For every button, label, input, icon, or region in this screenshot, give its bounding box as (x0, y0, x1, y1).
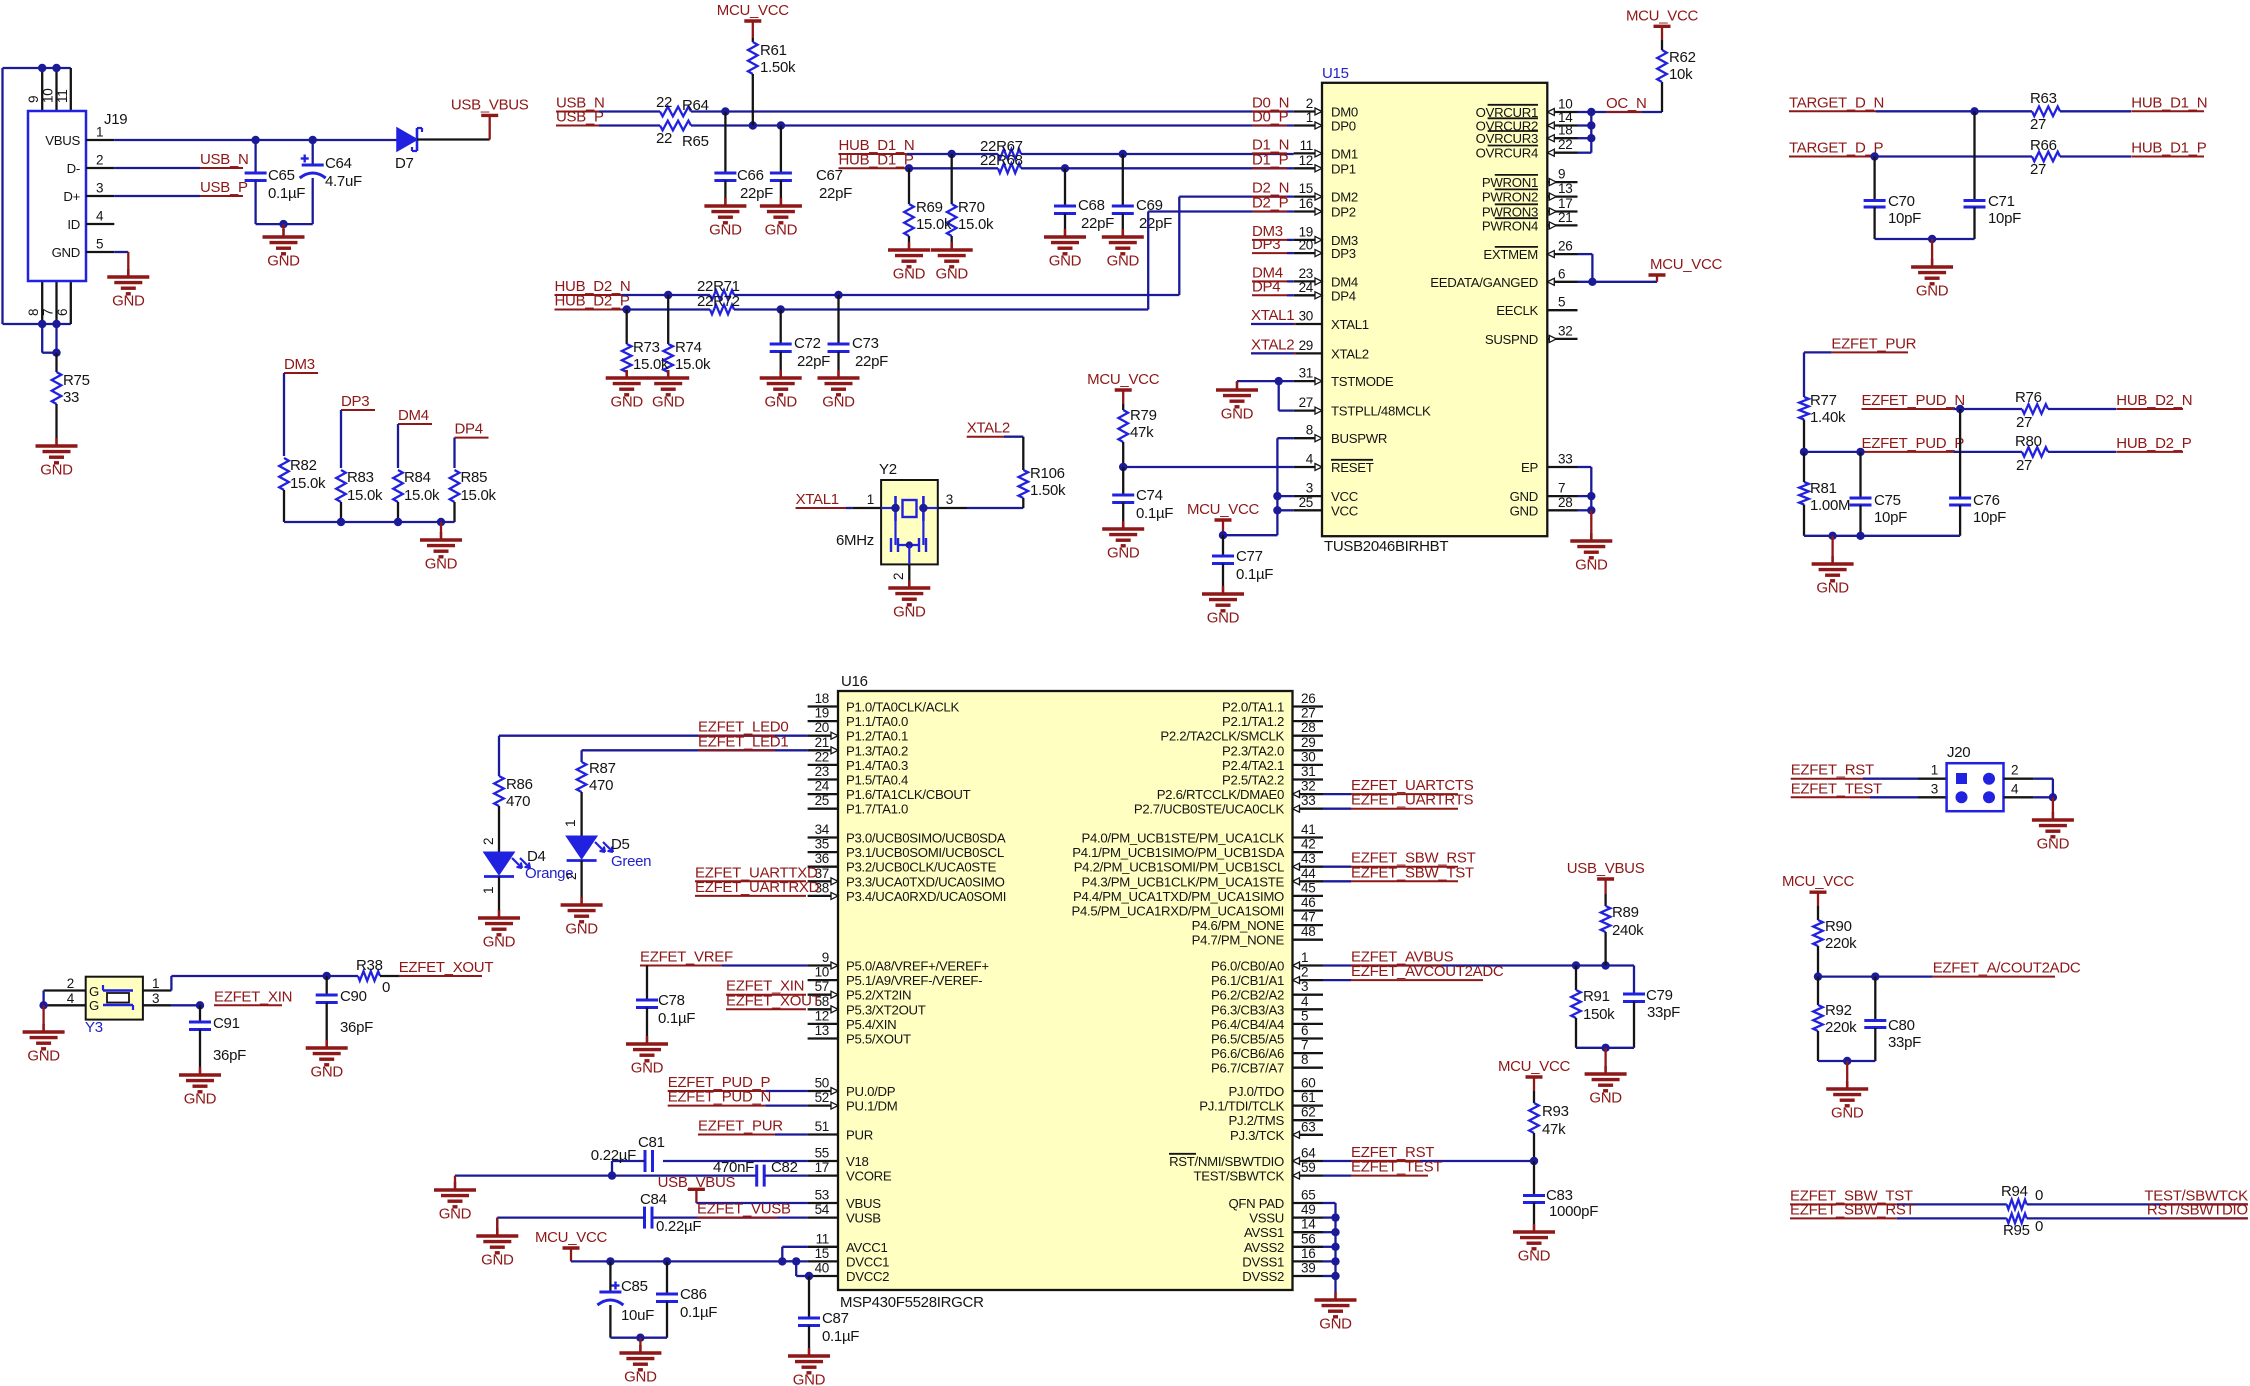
svg-text:30: 30 (1299, 309, 1313, 324)
svg-text:0: 0 (2035, 1218, 2043, 1235)
svg-text:GND: GND (267, 253, 300, 270)
svg-text:49: 49 (1301, 1202, 1315, 1217)
svg-text:15.0k: 15.0k (290, 475, 326, 492)
svg-text:P3.0/UCB0SIMO/UCB0SDA: P3.0/UCB0SIMO/UCB0SDA (846, 831, 1006, 846)
svg-text:4: 4 (1306, 452, 1314, 467)
svg-text:15.0k: 15.0k (347, 487, 383, 504)
svg-text:19: 19 (815, 706, 829, 721)
svg-text:C91: C91 (213, 1015, 240, 1032)
svg-text:6: 6 (1301, 1023, 1308, 1038)
svg-text:EZFET_TEST: EZFET_TEST (1791, 780, 1882, 797)
svg-text:47k: 47k (1130, 424, 1154, 441)
svg-text:D-: D- (67, 161, 80, 176)
svg-text:XTAL2: XTAL2 (967, 420, 1010, 437)
svg-text:48: 48 (1301, 924, 1315, 939)
svg-text:22: 22 (1558, 137, 1572, 152)
svg-text:27: 27 (1301, 706, 1315, 721)
svg-text:C79: C79 (1646, 987, 1673, 1004)
svg-text:29: 29 (1299, 338, 1313, 353)
svg-text:XTAL1: XTAL1 (1331, 317, 1369, 332)
svg-text:DVSS1: DVSS1 (1242, 1254, 1284, 1269)
svg-text:33: 33 (1558, 452, 1572, 467)
svg-text:P3.4/UCA0RXD/UCA0SOMI: P3.4/UCA0RXD/UCA0SOMI (846, 889, 1006, 904)
svg-text:220k: 220k (1825, 1019, 1857, 1036)
svg-text:P6.1/CB1/A1: P6.1/CB1/A1 (1211, 973, 1284, 988)
svg-text:P6.7/CB7/A7: P6.7/CB7/A7 (1211, 1061, 1284, 1076)
svg-text:11: 11 (816, 1231, 829, 1246)
svg-text:47: 47 (1301, 910, 1315, 925)
svg-text:2: 2 (2011, 763, 2018, 778)
svg-text:P1.6/TA1CLK/CBOUT: P1.6/TA1CLK/CBOUT (846, 787, 971, 802)
svg-text:TARGET_D_N: TARGET_D_N (1789, 94, 1884, 111)
svg-text:J19: J19 (104, 111, 127, 128)
svg-text:22pF: 22pF (740, 185, 773, 202)
svg-text:18: 18 (815, 691, 829, 706)
svg-text:AVCC1: AVCC1 (846, 1240, 888, 1255)
svg-text:5: 5 (96, 237, 103, 252)
svg-text:15.0k: 15.0k (404, 487, 440, 504)
svg-text:25: 25 (1299, 495, 1313, 510)
svg-text:R93: R93 (1542, 1103, 1569, 1120)
svg-text:P6.3/CB3/A3: P6.3/CB3/A3 (1211, 1002, 1284, 1017)
svg-text:P2.0/TA1.1: P2.0/TA1.1 (1222, 700, 1284, 715)
svg-text:TEST/SBWTCK: TEST/SBWTCK (1194, 1169, 1285, 1184)
svg-text:R106: R106 (1030, 465, 1065, 482)
svg-text:D+: D+ (63, 189, 80, 204)
svg-text:P1.4/TA0.3: P1.4/TA0.3 (846, 758, 908, 773)
svg-text:470: 470 (506, 793, 530, 810)
svg-text:U16: U16 (841, 673, 868, 690)
svg-text:HUB_D2_P: HUB_D2_P (2116, 435, 2191, 452)
svg-text:20: 20 (815, 720, 829, 735)
svg-text:15.0k: 15.0k (633, 356, 669, 373)
svg-text:0.1µF: 0.1µF (822, 1328, 859, 1345)
svg-text:3: 3 (1301, 979, 1308, 994)
svg-text:GND: GND (310, 1064, 343, 1081)
svg-text:GND: GND (1510, 489, 1538, 504)
svg-text:EZFET_XIN: EZFET_XIN (214, 988, 292, 1005)
svg-text:P2.5/TA2.2: P2.5/TA2.2 (1222, 773, 1284, 788)
svg-text:EZFET_A/COUT2ADC: EZFET_A/COUT2ADC (1933, 960, 2081, 977)
svg-text:4: 4 (96, 209, 104, 224)
svg-text:P6.6/CB6/A6: P6.6/CB6/A6 (1211, 1046, 1284, 1061)
svg-text:1: 1 (563, 820, 578, 827)
svg-text:EZFET_PUR: EZFET_PUR (698, 1118, 783, 1135)
svg-text:PJ.1/TDI/TCLK: PJ.1/TDI/TCLK (1199, 1099, 1284, 1114)
svg-text:C78: C78 (658, 992, 685, 1009)
svg-text:15.0k: 15.0k (675, 356, 711, 373)
svg-text:P6.0/CB0/A0: P6.0/CB0/A0 (1211, 959, 1284, 974)
svg-text:DP3: DP3 (341, 393, 369, 410)
svg-text:GND: GND (40, 462, 73, 479)
svg-text:R85: R85 (461, 469, 488, 486)
svg-text:15: 15 (1299, 181, 1313, 196)
svg-text:22R72: 22R72 (697, 293, 740, 310)
svg-text:6: 6 (55, 309, 70, 316)
svg-text:RST/NMI/SBWTDIO: RST/NMI/SBWTDIO (1169, 1154, 1284, 1169)
svg-text:EECLK: EECLK (1496, 303, 1538, 318)
svg-text:HUB_D1_P: HUB_D1_P (839, 151, 914, 168)
svg-text:GND: GND (481, 1252, 514, 1269)
svg-text:P4.7/PM_NONE: P4.7/PM_NONE (1192, 933, 1285, 948)
svg-text:GND: GND (52, 245, 80, 260)
svg-text:R69: R69 (916, 199, 943, 216)
svg-text:DM2: DM2 (1331, 190, 1358, 205)
svg-text:1.50k: 1.50k (1030, 482, 1066, 499)
svg-text:P3.1/UCB0SOMI/UCB0SCL: P3.1/UCB0SOMI/UCB0SCL (846, 845, 1004, 860)
svg-text:ID: ID (67, 217, 80, 232)
svg-text:1: 1 (481, 887, 496, 894)
svg-text:R80: R80 (2015, 433, 2042, 450)
svg-text:P4.4/PM_UCA1TXD/PM_UCA1SIMO: P4.4/PM_UCA1TXD/PM_UCA1SIMO (1073, 889, 1284, 904)
svg-text:33: 33 (63, 389, 79, 406)
svg-text:1: 1 (152, 976, 159, 991)
svg-text:PJ.0/TDO: PJ.0/TDO (1229, 1084, 1285, 1099)
svg-text:22R68: 22R68 (980, 152, 1023, 169)
svg-text:27: 27 (2030, 161, 2046, 178)
svg-text:DP0: DP0 (1331, 119, 1356, 134)
svg-text:GND: GND (1319, 1316, 1352, 1333)
svg-text:GND: GND (112, 293, 145, 310)
svg-text:PWRON3: PWRON3 (1482, 205, 1538, 220)
svg-text:MCU_VCC: MCU_VCC (1498, 1058, 1571, 1075)
svg-text:0.1µF: 0.1µF (1136, 505, 1173, 522)
svg-text:10pF: 10pF (1988, 210, 2021, 227)
svg-text:P2.6/RTCCLK/DMAE0: P2.6/RTCCLK/DMAE0 (1157, 787, 1284, 802)
svg-text:17: 17 (815, 1160, 829, 1175)
svg-text:GND: GND (1518, 1248, 1551, 1265)
svg-text:26: 26 (1558, 239, 1572, 254)
svg-text:GND: GND (1107, 253, 1140, 270)
svg-text:P6.5/CB5/A5: P6.5/CB5/A5 (1211, 1032, 1284, 1047)
svg-text:2: 2 (67, 976, 74, 991)
svg-text:34: 34 (815, 822, 830, 837)
svg-text:1: 1 (96, 125, 103, 140)
svg-text:USB_VBUS: USB_VBUS (658, 1174, 736, 1191)
svg-text:GND: GND (1916, 283, 1949, 300)
svg-text:22pF: 22pF (855, 353, 888, 370)
svg-text:P3.2/UCB0CLK/UCA0STE: P3.2/UCB0CLK/UCA0STE (846, 860, 997, 875)
svg-text:9: 9 (26, 96, 41, 103)
svg-text:D5: D5 (611, 836, 630, 853)
svg-text:27: 27 (2016, 414, 2032, 431)
svg-text:4: 4 (1301, 994, 1309, 1009)
svg-text:18: 18 (1558, 123, 1572, 138)
svg-text:C76: C76 (1973, 492, 2000, 509)
svg-text:10uF: 10uF (621, 1307, 654, 1324)
svg-text:C77: C77 (1236, 548, 1263, 565)
svg-text:GND: GND (822, 394, 855, 411)
svg-text:EZFET_SBW_TST: EZFET_SBW_TST (1351, 864, 1474, 881)
svg-text:P1.3/TA0.2: P1.3/TA0.2 (846, 743, 908, 758)
svg-text:GND: GND (1107, 545, 1140, 562)
svg-text:PJ.3/TCK: PJ.3/TCK (1230, 1128, 1285, 1143)
svg-text:5: 5 (1301, 1008, 1308, 1023)
svg-text:25: 25 (815, 793, 829, 808)
svg-text:59: 59 (1301, 1160, 1315, 1175)
svg-text:MCU_VCC: MCU_VCC (1782, 873, 1855, 890)
svg-text:VBUS: VBUS (45, 133, 80, 148)
svg-text:R74: R74 (675, 339, 702, 356)
svg-text:C67: C67 (816, 167, 843, 184)
svg-text:23: 23 (1299, 266, 1313, 281)
svg-text:8: 8 (1301, 1052, 1308, 1067)
svg-text:P1.0/TA0CLK/ACLK: P1.0/TA0CLK/ACLK (846, 700, 959, 715)
svg-text:1.40k: 1.40k (1810, 409, 1846, 426)
svg-text:32: 32 (1301, 779, 1315, 794)
svg-text:5: 5 (1558, 295, 1565, 310)
svg-text:USB_P: USB_P (556, 109, 604, 126)
svg-text:22pF: 22pF (797, 353, 830, 370)
svg-text:50: 50 (815, 1076, 829, 1091)
svg-text:R62: R62 (1669, 49, 1696, 66)
svg-text:GND: GND (425, 556, 458, 573)
svg-text:EZFET_TEST: EZFET_TEST (1351, 1159, 1442, 1176)
svg-text:XTAL1: XTAL1 (1251, 307, 1294, 324)
svg-text:C72: C72 (794, 335, 821, 352)
svg-text:GND: GND (624, 1369, 657, 1386)
svg-text:15.0k: 15.0k (958, 216, 994, 233)
svg-text:OVRCUR4: OVRCUR4 (1476, 146, 1538, 161)
svg-text:470: 470 (589, 777, 613, 794)
svg-text:HUB_D2_N: HUB_D2_N (2116, 392, 2192, 409)
svg-text:R86: R86 (506, 776, 533, 793)
svg-text:1: 1 (1931, 763, 1938, 778)
svg-text:7: 7 (1301, 1038, 1308, 1053)
svg-text:9: 9 (1558, 167, 1565, 182)
svg-text:VBUS: VBUS (846, 1196, 881, 1211)
svg-text:33: 33 (1301, 793, 1315, 808)
svg-text:13: 13 (815, 1023, 829, 1038)
svg-text:55: 55 (815, 1146, 829, 1161)
svg-text:64: 64 (1301, 1146, 1316, 1161)
svg-text:R90: R90 (1825, 918, 1852, 935)
svg-text:HUB_D1_P: HUB_D1_P (2131, 140, 2206, 157)
svg-text:51: 51 (815, 1119, 829, 1134)
svg-text:R94: R94 (2001, 1183, 2028, 1200)
svg-text:24: 24 (1299, 280, 1314, 295)
svg-text:VCORE: VCORE (846, 1169, 892, 1184)
svg-text:DM4: DM4 (398, 407, 429, 424)
svg-text:TUSB2046BIRHBT: TUSB2046BIRHBT (1324, 538, 1448, 555)
svg-text:56: 56 (1301, 1231, 1315, 1246)
svg-text:DP3: DP3 (1252, 236, 1280, 253)
svg-text:TARGET_D_P: TARGET_D_P (1789, 140, 1884, 157)
svg-text:DVCC1: DVCC1 (846, 1254, 889, 1269)
svg-text:GND: GND (439, 1206, 472, 1223)
svg-text:45: 45 (1301, 880, 1315, 895)
svg-text:42: 42 (1301, 837, 1315, 852)
svg-text:MCU_VCC: MCU_VCC (1650, 256, 1723, 273)
svg-text:XTAL1: XTAL1 (796, 491, 839, 508)
svg-text:GND: GND (893, 266, 926, 283)
svg-text:43: 43 (1301, 851, 1315, 866)
svg-text:22: 22 (815, 749, 829, 764)
svg-text:Green: Green (611, 853, 651, 870)
svg-text:36pF: 36pF (340, 1019, 373, 1036)
svg-text:C90: C90 (340, 988, 367, 1005)
svg-text:35: 35 (815, 837, 829, 852)
svg-text:D4: D4 (527, 848, 546, 865)
svg-text:U15: U15 (1322, 65, 1349, 82)
svg-text:10pF: 10pF (1888, 210, 1921, 227)
svg-text:PUR: PUR (846, 1128, 873, 1143)
svg-text:4: 4 (2011, 781, 2019, 796)
svg-text:46: 46 (1301, 895, 1315, 910)
svg-text:DVCC2: DVCC2 (846, 1269, 889, 1284)
svg-text:GND: GND (1589, 1090, 1622, 1107)
svg-text:R70: R70 (958, 199, 985, 216)
svg-text:C84: C84 (640, 1191, 667, 1208)
svg-text:52: 52 (815, 1090, 829, 1105)
svg-text:P4.2/PM_UCB1SOMI/PM_UCB1SCL: P4.2/PM_UCB1SOMI/PM_UCB1SCL (1074, 860, 1284, 875)
svg-text:7: 7 (1558, 481, 1565, 496)
svg-text:P1.1/TA0.0: P1.1/TA0.0 (846, 714, 908, 729)
svg-text:22pF: 22pF (819, 185, 852, 202)
svg-text:EZFET_VREF: EZFET_VREF (640, 949, 733, 966)
svg-text:VCC: VCC (1331, 503, 1359, 518)
svg-text:Y2: Y2 (879, 461, 897, 478)
svg-text:PJ.2/TMS: PJ.2/TMS (1229, 1113, 1285, 1128)
svg-text:D0_P: D0_P (1252, 109, 1289, 126)
svg-text:P1.5/TA0.4: P1.5/TA0.4 (846, 773, 908, 788)
svg-text:3: 3 (152, 991, 159, 1006)
svg-text:QFN PAD: QFN PAD (1228, 1196, 1284, 1211)
svg-text:36pF: 36pF (213, 1047, 246, 1064)
svg-text:DM1: DM1 (1331, 146, 1358, 161)
svg-text:C68: C68 (1078, 197, 1105, 214)
svg-text:EZFET_PUD_N: EZFET_PUD_N (668, 1089, 771, 1106)
svg-text:EZFET_VUSB: EZFET_VUSB (697, 1201, 791, 1218)
svg-text:GND: GND (27, 1048, 60, 1065)
svg-text:15.0k: 15.0k (916, 216, 952, 233)
svg-text:33pF: 33pF (1647, 1004, 1680, 1021)
svg-text:C65: C65 (268, 167, 295, 184)
svg-text:D2_P: D2_P (1252, 195, 1289, 212)
svg-text:PU.1/DM: PU.1/DM (846, 1099, 897, 1114)
svg-text:32: 32 (1558, 323, 1572, 338)
svg-text:P5.3/XT2OUT: P5.3/XT2OUT (846, 1002, 926, 1017)
svg-text:53: 53 (815, 1188, 829, 1203)
svg-text:R87: R87 (589, 760, 616, 777)
svg-text:GND: GND (2037, 836, 2070, 853)
svg-text:7: 7 (41, 309, 56, 316)
svg-text:GND: GND (565, 921, 598, 938)
svg-text:P5.2/XT2IN: P5.2/XT2IN (846, 988, 911, 1003)
svg-text:GND: GND (1221, 406, 1254, 423)
svg-text:DM4: DM4 (1331, 274, 1358, 289)
svg-text:16: 16 (1299, 196, 1313, 211)
svg-text:DVSS2: DVSS2 (1242, 1269, 1284, 1284)
svg-text:EZFET_SBW_RST: EZFET_SBW_RST (1790, 1201, 1915, 1218)
svg-text:2: 2 (96, 153, 103, 168)
svg-text:GND: GND (1207, 610, 1240, 627)
svg-text:HUB_D2_P: HUB_D2_P (555, 293, 630, 310)
svg-text:0: 0 (382, 979, 390, 996)
svg-text:27: 27 (2030, 116, 2046, 133)
svg-text:DP3: DP3 (1331, 246, 1356, 261)
svg-text:22: 22 (656, 94, 672, 111)
svg-text:C66: C66 (737, 167, 764, 184)
svg-text:2: 2 (481, 838, 496, 845)
svg-text:26: 26 (1301, 691, 1315, 706)
svg-text:USB_VBUS: USB_VBUS (451, 96, 529, 113)
svg-text:22: 22 (656, 130, 672, 147)
svg-text:P5.5/XOUT: P5.5/XOUT (846, 1032, 911, 1047)
svg-text:DP4: DP4 (455, 421, 483, 438)
svg-text:J20: J20 (1947, 744, 1970, 761)
svg-text:USB_N: USB_N (200, 151, 249, 168)
svg-text:OC_N: OC_N (1606, 95, 1646, 112)
svg-text:0.1µF: 0.1µF (680, 1304, 717, 1321)
svg-text:1: 1 (867, 492, 874, 507)
svg-text:0: 0 (2035, 1187, 2043, 1204)
svg-text:C87: C87 (822, 1310, 849, 1327)
svg-text:GND: GND (1049, 253, 1082, 270)
svg-text:6MHz: 6MHz (836, 532, 874, 549)
svg-text:XTAL2: XTAL2 (1251, 336, 1294, 353)
svg-text:EZFET_PUR: EZFET_PUR (1831, 335, 1916, 352)
svg-text:21: 21 (815, 735, 829, 750)
svg-text:PWRON1: PWRON1 (1482, 175, 1538, 190)
svg-text:8: 8 (26, 309, 41, 316)
svg-text:SUSPND: SUSPND (1485, 332, 1538, 347)
svg-text:R92: R92 (1825, 1002, 1852, 1019)
svg-text:65: 65 (1301, 1188, 1315, 1203)
svg-text:P2.4/TA2.1: P2.4/TA2.1 (1222, 758, 1284, 773)
svg-text:D1_P: D1_P (1252, 151, 1289, 168)
svg-text:P2.7/UCB0STE/UCA0CLK: P2.7/UCB0STE/UCA0CLK (1134, 802, 1285, 817)
svg-text:EZFET_LED1: EZFET_LED1 (698, 733, 788, 750)
svg-text:150k: 150k (1583, 1006, 1615, 1023)
svg-text:MCU_VCC: MCU_VCC (1626, 7, 1699, 24)
svg-text:1: 1 (1306, 110, 1313, 125)
svg-text:C73: C73 (852, 335, 879, 352)
svg-text:R76: R76 (2015, 389, 2042, 406)
svg-text:EZFET_AVCOUT2ADC: EZFET_AVCOUT2ADC (1351, 963, 1504, 980)
svg-text:AVSS2: AVSS2 (1244, 1240, 1284, 1255)
svg-text:1000pF: 1000pF (1549, 1203, 1598, 1220)
svg-text:GND: GND (765, 222, 798, 239)
svg-text:P4.5/PM_UCA1RXD/PM_UCA1SOMI: P4.5/PM_UCA1RXD/PM_UCA1SOMI (1072, 904, 1285, 919)
svg-text:22pF: 22pF (1139, 215, 1172, 232)
svg-text:DM3: DM3 (284, 356, 315, 373)
svg-text:1: 1 (1301, 950, 1308, 965)
svg-text:PWRON2: PWRON2 (1482, 190, 1538, 205)
svg-text:EZFET_UARTRXD: EZFET_UARTRXD (695, 879, 820, 896)
svg-text:GND: GND (483, 934, 516, 951)
svg-text:10pF: 10pF (1973, 509, 2006, 526)
svg-text:C64: C64 (325, 155, 352, 172)
svg-text:P4.3/PM_UCB1CLK/PM_UCA1STE: P4.3/PM_UCB1CLK/PM_UCA1STE (1081, 874, 1284, 889)
svg-text:MCU_VCC: MCU_VCC (1187, 501, 1260, 518)
svg-text:Y3: Y3 (85, 1019, 103, 1036)
svg-text:16: 16 (1301, 1246, 1315, 1261)
svg-text:R77: R77 (1810, 392, 1837, 409)
svg-text:EZFET_XOUT: EZFET_XOUT (726, 992, 821, 1009)
svg-text:VUSB: VUSB (846, 1211, 881, 1226)
svg-text:54: 54 (815, 1202, 830, 1217)
svg-text:40: 40 (815, 1261, 829, 1276)
svg-text:C75: C75 (1874, 492, 1901, 509)
svg-text:MCU_VCC: MCU_VCC (535, 1229, 608, 1246)
svg-text:C82: C82 (771, 1159, 798, 1176)
svg-text:3: 3 (946, 492, 953, 507)
svg-text:0.1µF: 0.1µF (268, 185, 305, 202)
svg-text:R64: R64 (682, 97, 709, 114)
svg-text:P2.2/TA2CLK/SMCLK: P2.2/TA2CLK/SMCLK (1160, 729, 1284, 744)
svg-text:GND: GND (631, 1060, 664, 1077)
